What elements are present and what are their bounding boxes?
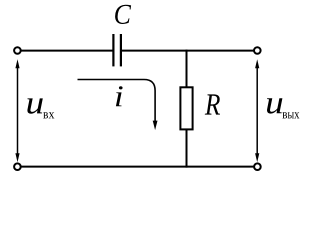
wire resistor top bbox=[186, 50, 188, 89]
wire top-right segment bbox=[121, 50, 254, 52]
terminal bottom-left bbox=[14, 163, 21, 170]
label R bbox=[205, 94, 220, 114]
terminal bottom-right bbox=[254, 163, 261, 170]
wire resistor bottom bbox=[186, 129, 188, 167]
label u_vx bbox=[27, 98, 42, 113]
terminal top-left bbox=[14, 47, 21, 54]
terminal top-right bbox=[254, 47, 261, 54]
wire top-left segment bbox=[21, 50, 113, 52]
current arrow i bbox=[78, 80, 158, 131]
label C bbox=[115, 5, 131, 24]
wire bottom bbox=[21, 166, 254, 168]
resistor R bbox=[180, 87, 192, 129]
capacitor C bbox=[113, 34, 121, 66]
voltage arrow right (u_vyx) bbox=[255, 59, 259, 162]
label i bbox=[116, 86, 123, 106]
voltage arrow left (u_vx) bbox=[15, 59, 19, 162]
label u_vyx bbox=[267, 98, 282, 113]
